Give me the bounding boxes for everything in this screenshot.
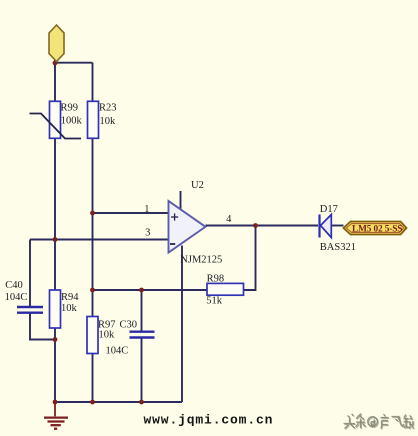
svg-text:1: 1 [144,204,149,215]
svg-text:3: 3 [145,228,150,239]
svg-text:C40: C40 [5,280,23,291]
svg-text:51k: 51k [206,296,223,307]
svg-text:LM5 02 5-SS: LM5 02 5-SS [352,224,402,234]
svg-text:10k: 10k [100,116,117,127]
svg-text:U2: U2 [191,180,204,191]
svg-text:C30: C30 [120,319,138,330]
svg-text:R97: R97 [98,319,116,330]
svg-text:100k: 100k [61,116,83,127]
svg-text:104C: 104C [106,345,129,356]
svg-text:NJM2125: NJM2125 [180,255,222,266]
svg-text:BAS321: BAS321 [320,242,356,253]
svg-text:R98: R98 [207,274,225,285]
svg-text:www.jqmi.com.cn: www.jqmi.com.cn [144,412,274,427]
svg-text:10k: 10k [61,303,78,314]
svg-text:D17: D17 [320,204,338,215]
svg-text:R99: R99 [61,103,79,114]
svg-text:10k: 10k [99,330,116,341]
svg-text:R94: R94 [61,292,79,303]
svg-text:R23: R23 [99,103,117,114]
svg-text:4: 4 [226,214,232,225]
svg-text:104C: 104C [5,292,28,303]
